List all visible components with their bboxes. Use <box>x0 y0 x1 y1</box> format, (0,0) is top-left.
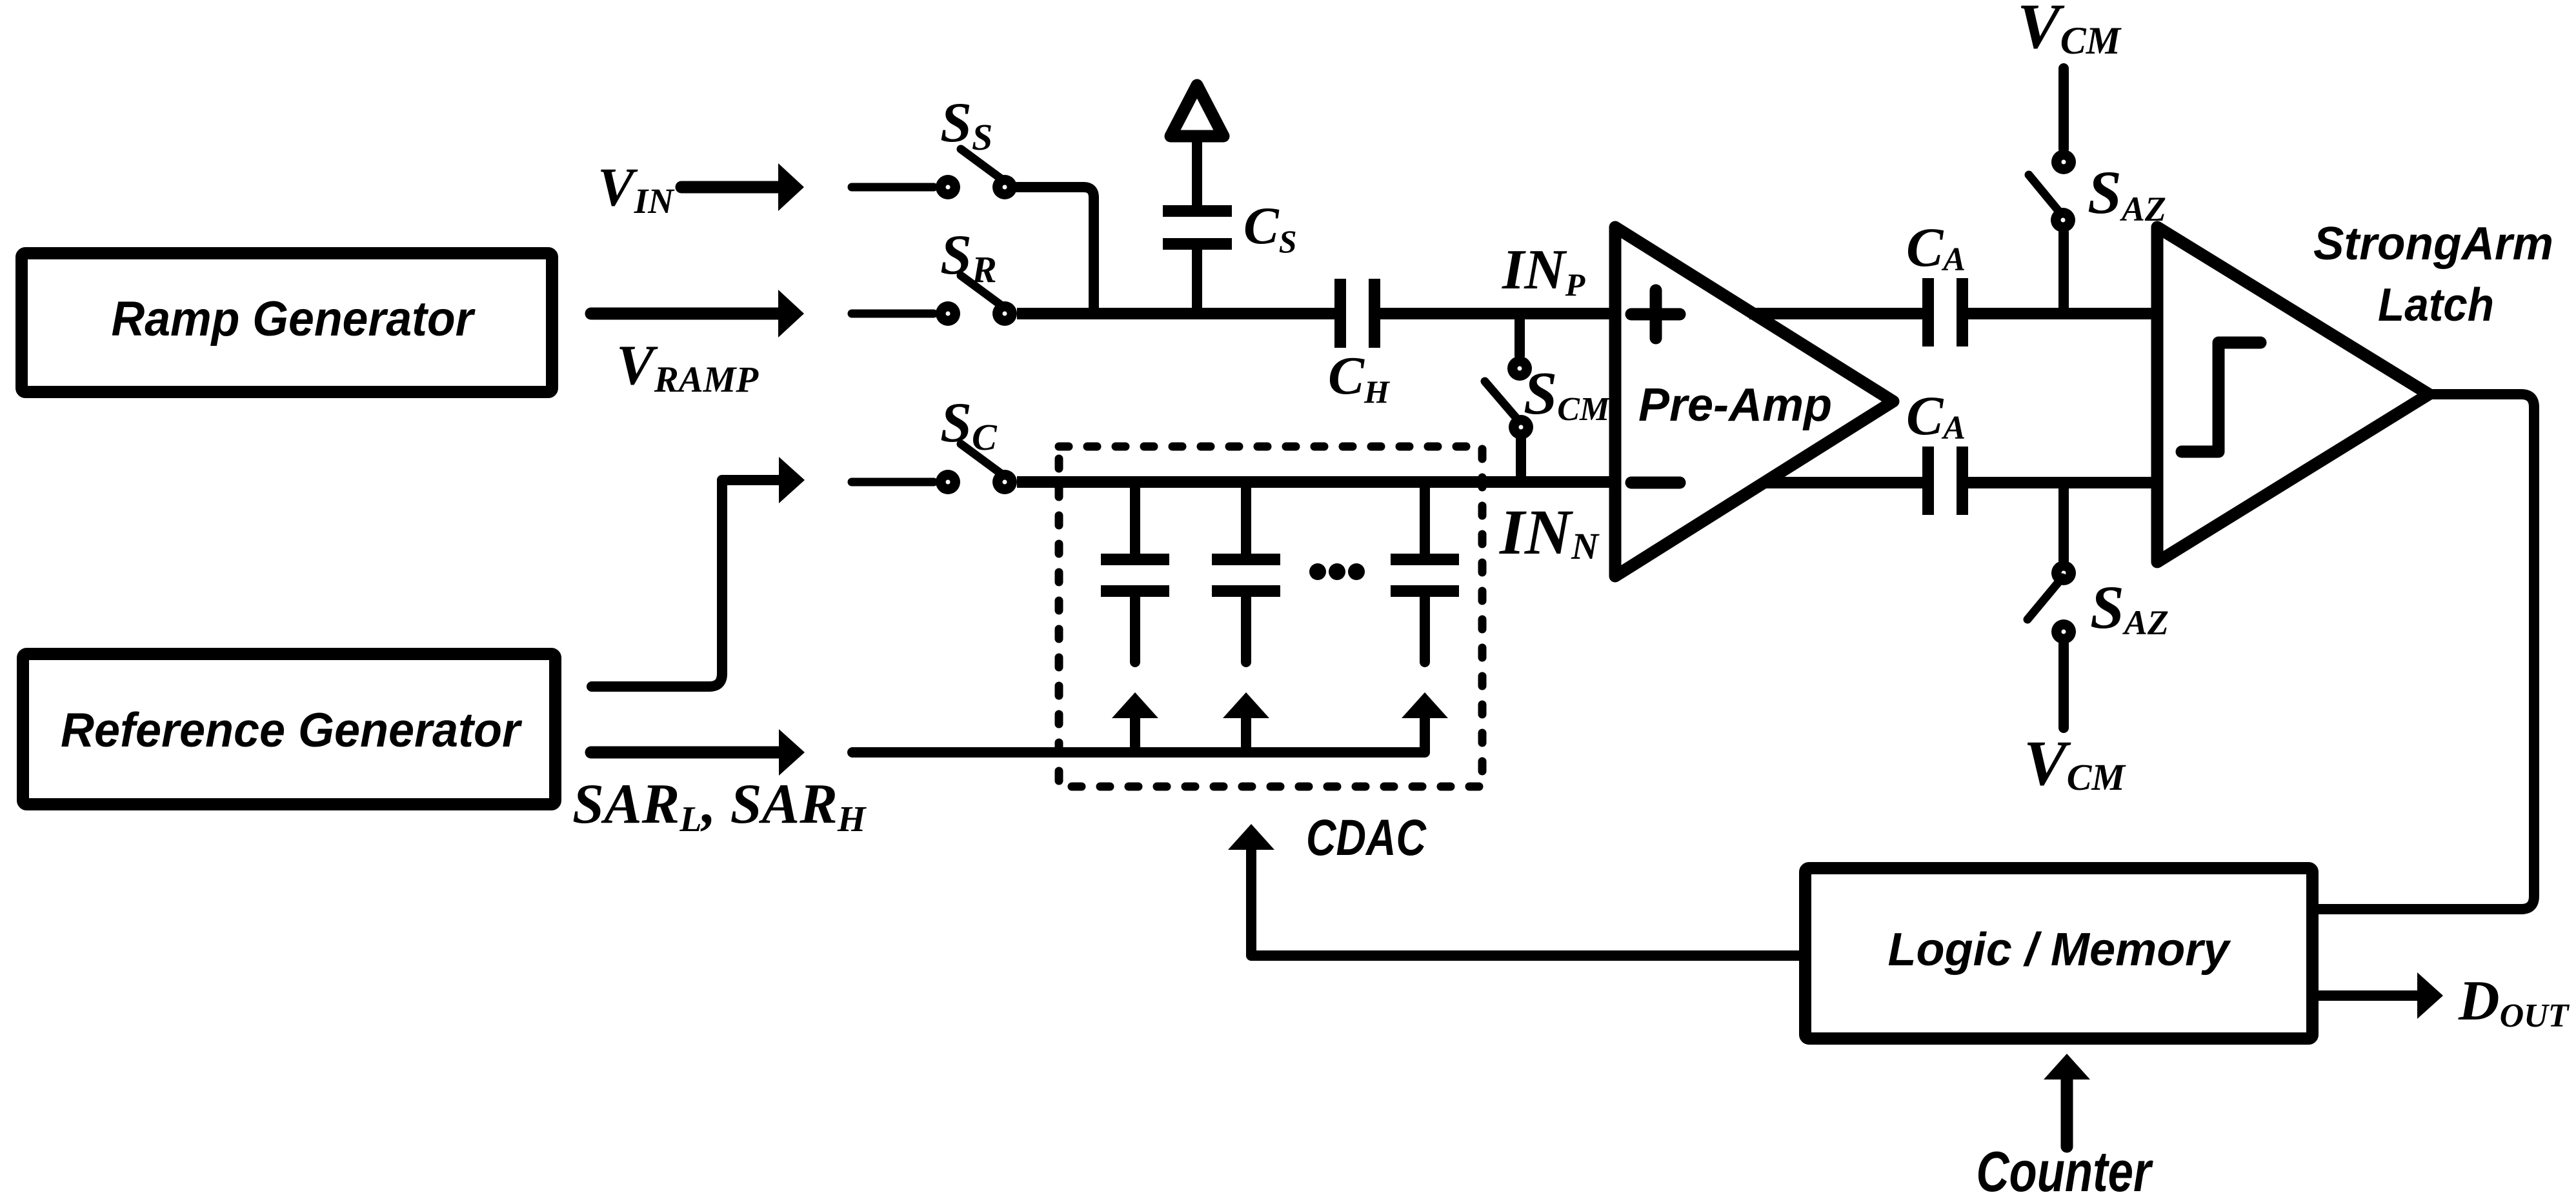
node CDAC feedback arrowhead <box>1228 824 1274 850</box>
switch SS lever <box>961 149 1003 180</box>
node Counter arrowhead <box>2044 1054 2090 1080</box>
node CDAC arrowhead 2 <box>1223 692 1269 718</box>
wire CA bottom to latch <box>1968 477 2157 488</box>
wire SCM to INN rail <box>1516 439 1526 482</box>
wire reference elbow arrow shaft <box>722 475 779 485</box>
node VRAMP arrowhead <box>778 290 804 337</box>
capacitor CA bottom right plate <box>1957 447 1968 515</box>
capacitor CDAC 2 top plate <box>1212 554 1280 565</box>
wire Counter arrow shaft <box>2061 1079 2073 1147</box>
minus input marker <box>1631 477 1680 489</box>
wire CDAC up arrow 2 <box>1241 719 1251 752</box>
switch SS contact dot right <box>992 175 1017 199</box>
capacitor CH left plate <box>1334 279 1346 348</box>
wire VRAMP arrow shaft <box>591 308 780 320</box>
op-amp Pre-Amp triangle <box>1615 227 1893 576</box>
wire CDAC 2 lower stem <box>1241 597 1251 662</box>
capacitor CDAC 1 bottom plate <box>1101 585 1169 597</box>
capacitor CDAC 1 stem <box>1130 482 1140 554</box>
capacitor CDAC 3 stem <box>1420 482 1430 554</box>
node VIN arrowhead <box>778 163 804 211</box>
wire VCM top stub <box>2058 68 2069 149</box>
switch SAZ bottom lever <box>2028 577 2062 619</box>
switch SAZ bottom wire from rail <box>2058 483 2069 561</box>
switch SR contact dot left <box>936 301 960 326</box>
wire latch output elbow down to logic box <box>2319 394 2534 909</box>
capacitor CDAC 2 stem <box>1241 482 1251 554</box>
wire SS to rail jog <box>1017 187 1094 314</box>
switch SAZ bottom contact dot upper <box>2051 561 2076 585</box>
switch SCM contact dot bottom <box>1509 415 1533 439</box>
wire CDAC 1 lower stem <box>1130 597 1140 662</box>
switch SAZ top contact dot upper <box>2051 150 2076 174</box>
svg-text:Latch: Latch <box>2378 279 2494 331</box>
switch SCM lever <box>1485 381 1520 423</box>
plus input marker <box>1631 308 1680 321</box>
wire SAR arrow shaft <box>591 747 778 759</box>
capacitor CDAC 3 top plate <box>1391 554 1459 565</box>
step symbol inside latch <box>2182 343 2260 452</box>
comparator StrongArm Latch triangle <box>2157 227 2429 562</box>
svg-text:CDAC: CDAC <box>1306 808 1427 866</box>
wire rail INN <box>1017 476 1615 488</box>
wire supply stem <box>1192 138 1202 206</box>
wire CDAC 3 lower stem <box>1420 597 1430 662</box>
switch SCM contact dot top <box>1507 356 1532 381</box>
switch SC contact dot right <box>992 470 1017 494</box>
wire preamp minus output to CA <box>1766 477 1922 488</box>
capacitor CA bottom left plate <box>1922 447 1934 515</box>
CDAC dashed box <box>1059 447 1482 787</box>
switch SAZ top contact dot lower <box>2051 208 2075 232</box>
capacitor CS bottom plate <box>1163 238 1232 250</box>
capacitor CDAC 2 bottom plate <box>1212 585 1280 597</box>
switch SR lever <box>961 276 1003 306</box>
capacitor CA top left plate <box>1922 278 1934 346</box>
switch SAZ bottom contact dot lower <box>2051 619 2076 644</box>
wire SS left stub <box>852 183 934 192</box>
wire CDAC bottom rail <box>852 719 1425 752</box>
wire VIN arrow shaft <box>681 181 780 194</box>
svg-text:SARL, SARH: SARL, SARH <box>572 773 867 839</box>
wire reference elbow up to SC <box>592 480 722 687</box>
svg-text:Ramp Generator: Ramp Generator <box>112 292 476 346</box>
svg-text:Reference Generator: Reference Generator <box>61 703 523 757</box>
svg-text:StrongArm: StrongArm <box>2313 218 2553 270</box>
wire preamp plus output to CA <box>1749 308 1922 319</box>
node reference elbow arrowhead <box>779 457 805 503</box>
wire SC left stub <box>852 478 934 487</box>
wire DOUT arrow shaft <box>2319 990 2419 1001</box>
switch SR contact dot right <box>992 301 1017 326</box>
capacitor CDAC 1 top plate <box>1101 554 1169 565</box>
block Reference Generator box <box>23 654 556 805</box>
capacitor CA top right plate <box>1957 278 1968 346</box>
switch SCM wire from INP rail <box>1514 314 1525 356</box>
wire rail INP left segment <box>1017 308 1334 319</box>
switch SC lever <box>961 444 1003 475</box>
wire logic to CDAC elbow <box>1251 850 1799 956</box>
svg-text:Pre-Amp: Pre-Amp <box>1638 379 1832 431</box>
wire CA top to latch <box>1968 308 2157 319</box>
capacitor CDAC 3 bottom plate <box>1391 585 1459 597</box>
switch SC contact dot left <box>936 470 960 494</box>
svg-text:Counter: Counter <box>1977 1140 2154 1195</box>
wire CDAC up arrow 1 <box>1130 719 1140 752</box>
wire SAZ top to rail <box>2058 232 2069 314</box>
wire rail INP right segment <box>1380 308 1615 319</box>
block Ramp Generator box <box>22 254 552 392</box>
wire SAZ bottom to VCM <box>2058 644 2069 728</box>
svg-text:Logic / Memory: Logic / Memory <box>1888 924 2232 976</box>
block Logic / Memory box <box>1806 869 2313 1039</box>
power supply symbol above CS <box>1171 85 1223 136</box>
node SAR arrowhead <box>779 729 805 776</box>
capacitor CS top plate <box>1163 205 1232 217</box>
switch SAZ top lever <box>2029 175 2062 216</box>
capacitor CH right plate <box>1369 279 1380 348</box>
node CDAC rail arrowhead <box>1402 692 1448 718</box>
switch SS contact dot left <box>936 175 960 199</box>
node CDAC arrowhead 1 <box>1112 692 1158 718</box>
wire CS to rail <box>1192 250 1202 314</box>
node ellipsis dots <box>1309 563 1326 580</box>
node DOUT arrowhead <box>2417 972 2443 1019</box>
wire SR left stub <box>852 310 934 318</box>
